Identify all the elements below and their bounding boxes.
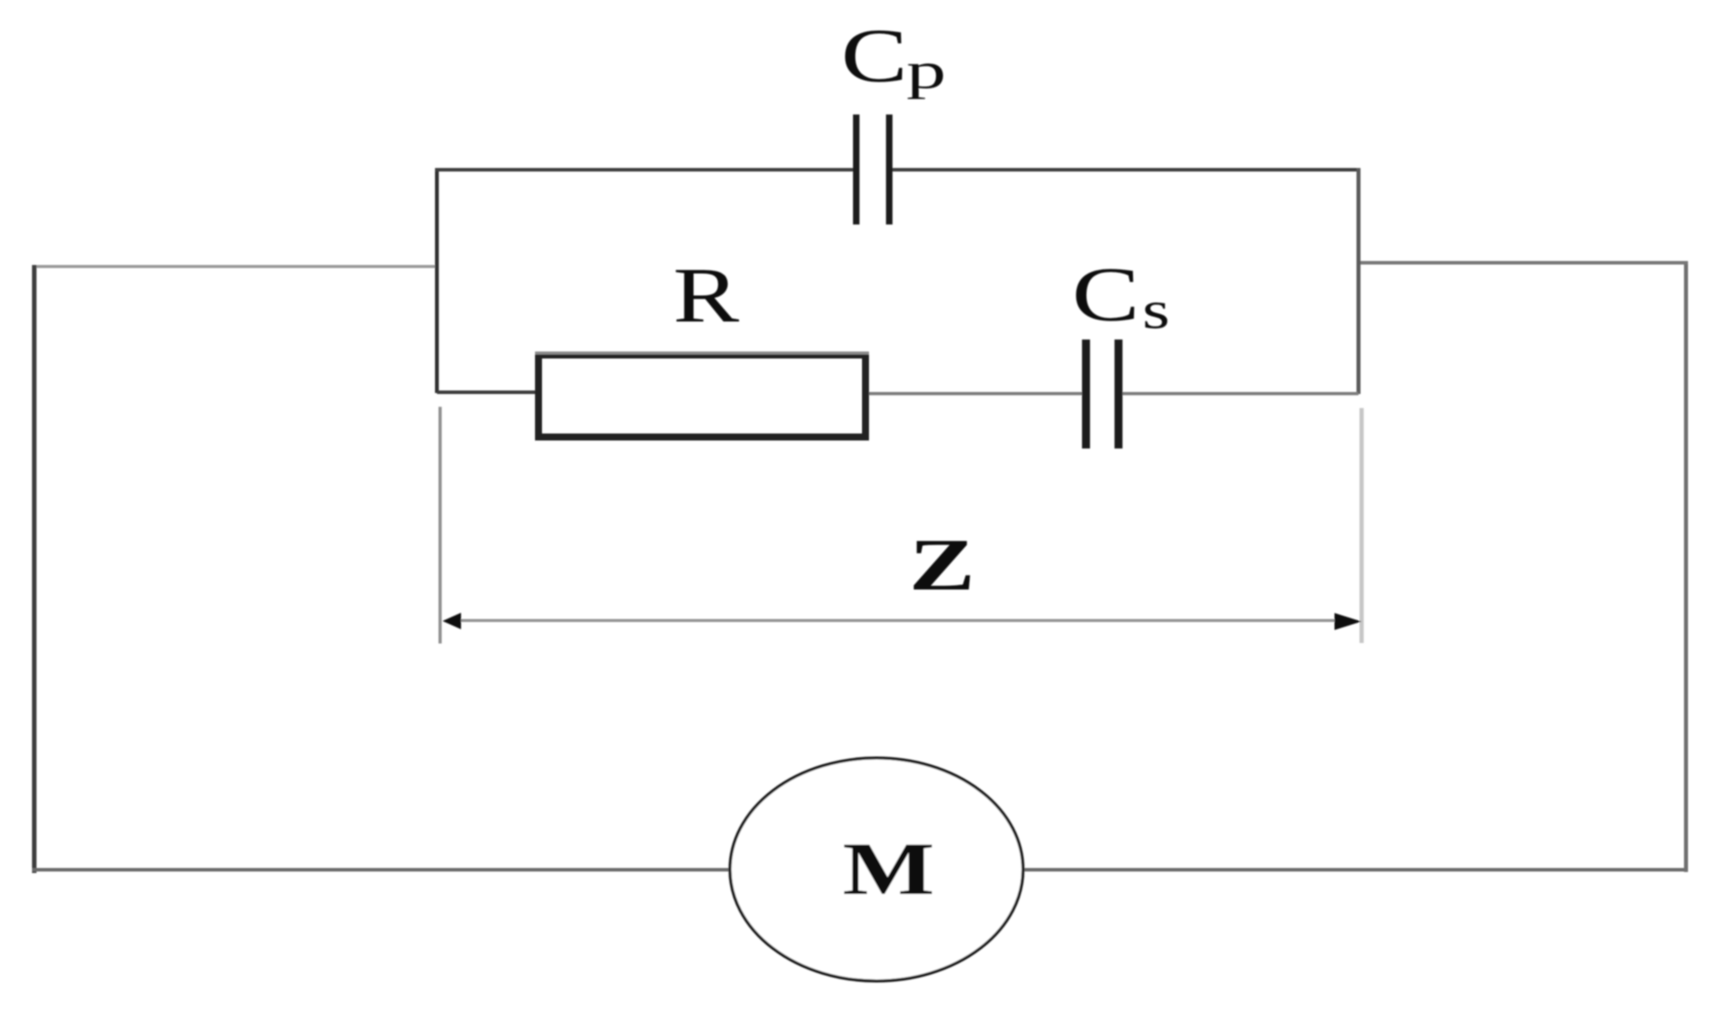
resistor R [535, 352, 869, 438]
svg-text:C: C [841, 15, 908, 99]
wire: outer bottom horizontal (left of meter) [32, 868, 732, 872]
meter M ellipse [730, 758, 1023, 981]
wire: inner box top (left segment to Cp) [435, 168, 854, 172]
Z dimension arrow line [450, 619, 1345, 622]
label R [673, 252, 740, 339]
wire: outer right vertical [1684, 261, 1688, 872]
label Cs [1072, 252, 1170, 340]
wire: outer top-left horizontal [32, 265, 438, 268]
wire: branch left (inner left vertical to resistor) [437, 391, 536, 395]
Z arrowhead left [443, 613, 462, 629]
wire: outer left vertical [32, 265, 37, 873]
wire: inner box right vertical [1357, 168, 1361, 394]
svg-text:M: M [843, 827, 935, 911]
wire: inner box top (right segment from Cp) [892, 168, 1360, 172]
Z arrowhead right [1335, 613, 1362, 630]
svg-text:p: p [906, 43, 946, 100]
svg-text:Z: Z [909, 523, 975, 606]
wire: inner box left vertical [435, 168, 439, 393]
svg-text:R: R [673, 252, 740, 339]
label Cp [841, 15, 946, 100]
wire: outer top-right horizontal [1358, 261, 1688, 265]
label M [843, 827, 935, 911]
wire: branch right (Cs to inner right vertical) [1123, 392, 1359, 395]
wire: branch middle (resistor to Cs) [869, 392, 1083, 395]
wire: outer bottom horizontal (right of meter) [1021, 868, 1688, 872]
svg-text:C: C [1072, 252, 1140, 337]
capacitor Cp [853, 115, 893, 225]
label Z [909, 523, 975, 606]
svg-text:s: s [1142, 280, 1170, 340]
capacitor Cs [1082, 340, 1123, 449]
Z dimension left tick [439, 407, 442, 644]
Z dimension right tick [1360, 408, 1364, 643]
